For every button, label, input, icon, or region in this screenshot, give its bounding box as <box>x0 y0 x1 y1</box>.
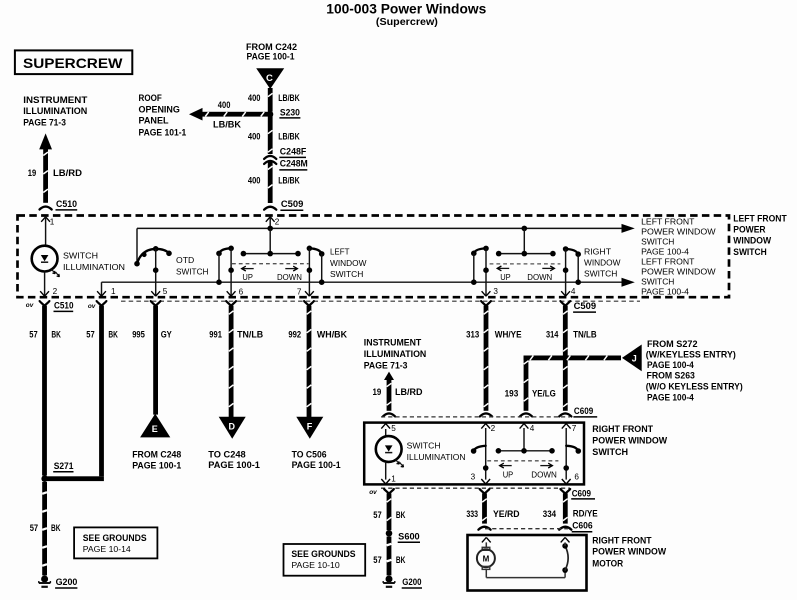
svg-text:4: 4 <box>571 287 576 296</box>
connector J (triangle from S272/S263) <box>622 345 642 372</box>
wire bus to OTD switch contact <box>136 228 138 263</box>
wire 400 LB/BK branch to roof opening panel <box>199 112 273 117</box>
svg-text:19: 19 <box>28 168 36 178</box>
svg-text:RIGHT FRONT: RIGHT FRONT <box>592 536 652 546</box>
svg-text:WINDOW: WINDOW <box>584 258 621 268</box>
svg-text:WH/BK: WH/BK <box>317 330 348 340</box>
svg-text:SWITCH: SWITCH <box>176 266 209 276</box>
left front power window switch dashed box <box>18 216 730 298</box>
connector C609 dashed line (bottom) <box>381 487 570 489</box>
wire 992 WH/BK (pin 7 to connector F) <box>307 306 312 417</box>
svg-text:4: 4 <box>530 424 535 433</box>
flare below pin 7 <box>304 301 314 306</box>
connector E (triangle from C248) <box>140 414 170 438</box>
svg-text:313: 313 <box>466 330 479 340</box>
svg-text:SWITCH: SWITCH <box>584 269 617 279</box>
left window switch - center contacts <box>243 253 298 255</box>
svg-text:F: F <box>307 422 313 432</box>
svg-text:LEFT FRONT: LEFT FRONT <box>641 256 695 266</box>
wire 400 LB/BK (C242 to C248F) <box>268 88 273 154</box>
svg-text:1: 1 <box>391 474 396 483</box>
svg-text:PAGE 100-1: PAGE 100-1 <box>247 52 295 62</box>
wire 400 LB/BK (C248M to C509) <box>268 161 273 203</box>
wire 193 YE/LG from connector J <box>524 356 621 361</box>
svg-text:DOWN: DOWN <box>531 470 557 480</box>
svg-text:57: 57 <box>29 330 37 340</box>
svg-text:LEFT: LEFT <box>330 246 350 256</box>
svg-text:LB/RD: LB/RD <box>53 168 83 178</box>
svg-text:PAGE 100-4: PAGE 100-4 <box>641 246 689 256</box>
svg-text:ILLUMINATION: ILLUMINATION <box>364 349 427 359</box>
svg-text:SWITCH: SWITCH <box>733 247 766 257</box>
svg-text:SWITCH: SWITCH <box>641 236 674 246</box>
svg-text:G200: G200 <box>56 577 78 587</box>
left window switch - coupling dashed line <box>232 263 309 265</box>
svg-text:57: 57 <box>30 523 38 533</box>
wire 313 WH/YE (pin 3 to right front switch) <box>484 306 489 411</box>
connector D (triangle to C248) <box>219 417 246 439</box>
svg-text:TO C506: TO C506 <box>292 450 327 460</box>
svg-text:333: 333 <box>466 509 478 519</box>
svg-text:193: 193 <box>505 389 519 399</box>
right window switch - DOWN motion arrow <box>542 267 554 269</box>
connector C (triangle from C242) <box>256 68 284 89</box>
svg-text:2: 2 <box>53 287 58 296</box>
svg-text:UP: UP <box>500 272 511 282</box>
splice S271 <box>41 475 48 482</box>
flare below pin 6 <box>226 301 236 306</box>
svg-text:SWITCH: SWITCH <box>407 441 441 451</box>
pin 2 / C509 feed entering box <box>266 217 275 222</box>
pin 4 wire and center contacts (right front switch) <box>520 424 529 429</box>
motor internal switch contact <box>562 567 568 573</box>
wire 57 BK (S600 to G200) <box>387 537 392 576</box>
svg-text:SWITCH: SWITCH <box>641 276 674 286</box>
svg-text:PAGE 100-1: PAGE 100-1 <box>208 460 260 470</box>
svg-text:C509: C509 <box>574 301 597 311</box>
arrow rail to left front power window switch page 100-4 <box>622 278 635 287</box>
motor circuit wire (bottom) <box>485 570 487 578</box>
svg-text:YE/RD: YE/RD <box>493 509 520 519</box>
svg-text:S271: S271 <box>54 461 74 471</box>
splice S600 <box>386 530 393 537</box>
svg-text:J: J <box>632 353 637 363</box>
svg-text:6: 6 <box>239 287 244 296</box>
arrow to instrument illumination (middle) <box>384 372 394 380</box>
ground G200 (left) <box>41 576 48 583</box>
pin 2 wire (right front switch) <box>481 424 490 429</box>
wire 314 TN/LB (pin 4 to right front switch) <box>563 306 568 411</box>
svg-text:WINDOW: WINDOW <box>330 258 367 268</box>
motor M (right front power window motor) <box>482 547 490 550</box>
svg-text:C248F: C248F <box>280 146 307 156</box>
svg-text:C609: C609 <box>572 488 591 498</box>
left window switch - DOWN motion arrow <box>285 268 297 270</box>
svg-text:PAGE 100-4: PAGE 100-4 <box>641 286 689 296</box>
svg-text:RIGHT FRONT: RIGHT FRONT <box>592 424 653 434</box>
svg-text:INSTRUMENT: INSTRUMENT <box>364 337 422 347</box>
svg-text:SWITCH: SWITCH <box>330 269 363 279</box>
svg-text:PAGE 100-4: PAGE 100-4 <box>647 360 694 370</box>
svg-text:PAGE 71-3: PAGE 71-3 <box>23 118 66 128</box>
svg-text:PAGE 100-1: PAGE 100-1 <box>132 461 181 471</box>
left window switch - wiper to pin 6 <box>230 248 232 295</box>
svg-text:400: 400 <box>248 132 261 142</box>
svg-text:5: 5 <box>391 424 396 433</box>
svg-text:PAGE 71-3: PAGE 71-3 <box>364 361 408 371</box>
svg-text:PAGE 100-4: PAGE 100-4 <box>647 393 694 403</box>
svg-text:(W/KEYLESS ENTRY): (W/KEYLESS ENTRY) <box>646 349 736 359</box>
wire 19 LB/RD (left, to instrument illumination) <box>43 147 48 203</box>
flare below right front switch pin 6 <box>560 489 570 494</box>
flare below pin 4 / C509 <box>560 301 570 306</box>
svg-text:DOWN: DOWN <box>277 272 302 282</box>
pin 5 (right front switch) <box>381 424 390 429</box>
svg-text:C510: C510 <box>56 199 77 209</box>
svg-text:400: 400 <box>218 100 231 110</box>
svg-text:RD/YE: RD/YE <box>573 508 598 518</box>
svg-text:C606: C606 <box>572 520 593 530</box>
left window switch - down arm and contact <box>307 246 313 252</box>
SEE GROUNDS PAGE 10-14 box <box>74 527 157 558</box>
connector F (triangle to C506) <box>296 417 323 439</box>
flare at C609 (314) <box>559 413 571 416</box>
in-line connector C248F/C248M <box>264 156 276 159</box>
svg-text:POWER WINDOW: POWER WINDOW <box>641 226 716 236</box>
right front switch - up contact and arm <box>471 448 477 454</box>
svg-text:ov: ov <box>369 489 377 496</box>
flare below pin 3 <box>481 301 491 306</box>
connector C609 dashed line (top) <box>381 416 570 418</box>
svg-text:1: 1 <box>50 218 55 227</box>
svg-text:UP: UP <box>242 272 253 282</box>
svg-text:C510: C510 <box>54 300 74 310</box>
svg-text:(Supercrew): (Supercrew) <box>376 17 438 28</box>
ground rail inside switch (from pin 1) <box>102 281 631 283</box>
svg-text:G200: G200 <box>402 577 421 587</box>
left window switch - UP motion arrow <box>242 268 254 270</box>
pin 5 arrow <box>151 291 160 296</box>
right window switch - wiper to pin 3 <box>485 248 487 295</box>
svg-text:PANEL: PANEL <box>139 116 170 126</box>
svg-text:314: 314 <box>546 330 558 340</box>
svg-text:57: 57 <box>86 330 94 340</box>
flare at C606 (334) <box>559 527 571 530</box>
svg-text:WH/YE: WH/YE <box>495 330 522 340</box>
svg-text:ILLUMINATION: ILLUMINATION <box>63 262 125 272</box>
motor feed arrow (right) <box>561 537 570 542</box>
pin 3 arrow <box>482 291 491 296</box>
wire 334 RD/YE (to window motor) <box>563 493 568 523</box>
svg-text:C609: C609 <box>574 406 593 416</box>
svg-text:ROOF: ROOF <box>139 93 163 103</box>
svg-text:991: 991 <box>209 330 222 340</box>
svg-text:C509: C509 <box>281 199 304 209</box>
svg-text:400: 400 <box>248 176 261 186</box>
svg-text:POWER WINDOW: POWER WINDOW <box>641 266 716 276</box>
pin 1 (right front switch) <box>385 462 387 480</box>
connector C510 flare below pin 2 <box>40 301 50 306</box>
right front switch - coupling dashed line <box>487 460 558 462</box>
pin 2 (illumination ground) <box>44 272 46 296</box>
svg-text:E: E <box>152 424 158 434</box>
switch illumination lamp (left switch) <box>32 246 58 272</box>
svg-text:M: M <box>483 554 490 563</box>
connector C510 flare (top of left switch) <box>40 207 52 210</box>
OTD switch <box>134 261 140 267</box>
pin 6 arrow <box>227 291 236 296</box>
svg-text:LEFT FRONT: LEFT FRONT <box>733 213 787 223</box>
svg-text:6: 6 <box>574 473 579 482</box>
svg-text:POWER: POWER <box>733 224 766 234</box>
svg-text:3: 3 <box>471 473 476 482</box>
svg-text:LB/BK: LB/BK <box>278 132 300 142</box>
pin 7 arrow <box>305 291 314 296</box>
left window switch - up contact and arm <box>216 251 222 257</box>
ground G200 (right) <box>386 576 393 583</box>
svg-text:SUPERCREW: SUPERCREW <box>23 56 123 71</box>
svg-text:POWER WINDOW: POWER WINDOW <box>592 547 666 557</box>
svg-text:ILLUMINATION: ILLUMINATION <box>407 452 466 462</box>
left window switch - feed from bus <box>269 228 271 253</box>
svg-text:GY: GY <box>161 330 172 340</box>
pin 4 arrow <box>561 291 570 296</box>
flare below right front switch pin 3 <box>480 489 490 494</box>
svg-text:LB/BK: LB/BK <box>213 120 242 130</box>
svg-text:FROM S263: FROM S263 <box>647 370 695 380</box>
svg-text:995: 995 <box>132 330 145 340</box>
wire 995 GY (pin 5 to connector E) <box>153 306 158 415</box>
right window switch - center contacts <box>499 253 553 255</box>
wire 19 LB/RD (to right front switch pin 5) <box>387 378 392 411</box>
svg-text:PAGE 10-14: PAGE 10-14 <box>83 544 131 554</box>
svg-text:LB/BK: LB/BK <box>278 176 300 186</box>
splice S230 <box>267 111 273 117</box>
wire 57 BK (S271 to G200) <box>42 482 47 575</box>
svg-text:FROM S272: FROM S272 <box>647 339 698 349</box>
right window switch - feed from bus <box>523 228 525 253</box>
svg-text:MOTOR: MOTOR <box>592 558 623 568</box>
svg-text:OTD: OTD <box>176 255 194 265</box>
svg-text:S600: S600 <box>398 532 420 542</box>
svg-text:YE/LG: YE/LG <box>532 389 556 399</box>
wire 333 YE/RD (to window motor) <box>482 493 487 523</box>
svg-text:C248M: C248M <box>280 158 308 168</box>
right front switch - UP motion arrow <box>500 465 512 467</box>
flare at C609 (313) <box>480 413 492 416</box>
flare at C609 (19 LB/RD) <box>383 413 395 416</box>
svg-text:LEFT FRONT: LEFT FRONT <box>641 216 695 226</box>
svg-text:BK: BK <box>108 330 118 340</box>
right window switch - down arm and contact <box>563 246 569 252</box>
connector C509 flare (top of switch box) <box>264 207 276 210</box>
svg-text:TN/LB: TN/LB <box>237 330 263 340</box>
right front switch - down arm and contact <box>566 446 578 451</box>
pin 1 arrow (bottom) <box>97 291 106 296</box>
pin 7 wire (right front switch) <box>562 424 571 429</box>
svg-text:57: 57 <box>373 555 381 565</box>
svg-text:S230: S230 <box>280 107 300 117</box>
pin 1 (switch illumination feed) <box>41 217 50 222</box>
svg-text:ov: ov <box>26 302 34 309</box>
svg-text:334: 334 <box>543 509 556 519</box>
svg-text:SWITCH: SWITCH <box>592 447 628 457</box>
arrow to roof opening panel <box>189 108 203 121</box>
svg-text:UP: UP <box>503 470 514 480</box>
svg-text:C: C <box>266 73 273 84</box>
svg-text:PAGE 100-1: PAGE 100-1 <box>292 460 341 470</box>
flare below pin 5 <box>151 301 161 306</box>
svg-text:57: 57 <box>373 510 381 520</box>
svg-text:TO C248: TO C248 <box>208 450 245 460</box>
svg-text:BK: BK <box>51 523 61 533</box>
svg-text:D: D <box>229 422 236 432</box>
arrow feed to left front power window switch page 100-4 <box>622 224 635 233</box>
right window switch - coupling dashed line <box>490 263 561 265</box>
right window switch - UP motion arrow <box>497 267 509 269</box>
svg-text:PAGE 10-10: PAGE 10-10 <box>291 560 339 570</box>
svg-text:LB/RD: LB/RD <box>395 387 423 397</box>
svg-text:SEE GROUNDS: SEE GROUNDS <box>291 549 355 559</box>
wire 57 BK (pin 2 to S271) <box>42 306 47 476</box>
SEE GROUNDS PAGE 10-10 box <box>284 544 366 576</box>
svg-text:OPENING: OPENING <box>139 104 180 114</box>
right front switch - DOWN motion arrow <box>540 465 552 467</box>
svg-text:RIGHT: RIGHT <box>584 247 612 257</box>
svg-text:400: 400 <box>248 93 261 103</box>
svg-text:2: 2 <box>491 424 496 433</box>
svg-text:ov: ov <box>88 303 96 310</box>
wire 57 BK (pin 1 to S271) <box>99 306 104 477</box>
wire 57 BK (right, to S600) <box>387 493 392 530</box>
svg-text:TN/LB: TN/LB <box>573 330 597 340</box>
svg-text:BK: BK <box>51 330 61 340</box>
svg-text:SWITCH: SWITCH <box>63 250 98 260</box>
pin 3 arrow (right front switch) <box>481 479 490 484</box>
flare below right front switch pin 1 <box>384 489 394 494</box>
svg-text:992: 992 <box>288 330 301 340</box>
wire 991 TN/LB (pin 6 to connector D) <box>229 306 234 417</box>
switch illumination lamp (right front switch) <box>376 436 402 462</box>
feed bus wire inside switch <box>137 227 631 229</box>
svg-text:DOWN: DOWN <box>527 272 552 282</box>
svg-text:BK: BK <box>396 555 406 565</box>
svg-text:ILLUMINATION: ILLUMINATION <box>23 106 87 116</box>
svg-text:BK: BK <box>396 510 406 520</box>
svg-text:1: 1 <box>111 287 116 296</box>
right window switch - up contact and arm <box>471 251 477 257</box>
connector C606 dashed line <box>485 528 568 530</box>
pin 6 arrow (right front switch) <box>562 479 571 484</box>
svg-text:FROM C248: FROM C248 <box>132 450 181 460</box>
right front power window switch box <box>364 423 584 485</box>
flare at C609 (193) <box>520 413 532 416</box>
svg-text:PAGE 101-1: PAGE 101-1 <box>139 128 187 138</box>
svg-text:3: 3 <box>493 287 498 296</box>
svg-text:7: 7 <box>297 287 302 296</box>
svg-text:100-003 Power Windows: 100-003 Power Windows <box>326 2 486 17</box>
svg-text:INSTRUMENT: INSTRUMENT <box>23 95 88 105</box>
right front power window motor box <box>468 535 587 591</box>
flare at C606 (333) <box>478 527 490 530</box>
svg-text:LB/BK: LB/BK <box>278 93 300 103</box>
svg-text:19: 19 <box>373 387 382 397</box>
svg-text:2: 2 <box>275 218 280 227</box>
svg-text:7: 7 <box>572 424 577 433</box>
SUPERCREW label box <box>15 50 132 74</box>
arrow to instrument illumination (left) <box>39 133 52 149</box>
svg-text:SEE GROUNDS: SEE GROUNDS <box>83 533 147 543</box>
svg-text:(W/O KEYLESS ENTRY): (W/O KEYLESS ENTRY) <box>646 382 743 392</box>
flare below pin 1 <box>97 301 107 306</box>
motor feed arrow (left) <box>482 537 491 542</box>
svg-text:WINDOW: WINDOW <box>733 235 771 245</box>
svg-text:POWER WINDOW: POWER WINDOW <box>592 436 667 446</box>
connector dashed line below switch (C510) <box>121 300 640 302</box>
svg-text:5: 5 <box>163 287 168 296</box>
